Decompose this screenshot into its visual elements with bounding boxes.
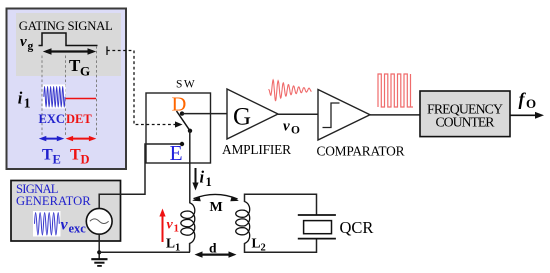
- svg-text:COMPARATOR: COMPARATOR: [317, 144, 405, 159]
- TG measure arrow: [46, 50, 93, 52]
- wire oscillator to ground: [98, 234, 100, 259]
- oscillator source circle: [86, 208, 112, 234]
- svg-text:v: v: [61, 217, 69, 234]
- switch pole node: [188, 129, 192, 133]
- gating signal panel box: [7, 9, 127, 170]
- svg-text:exc: exc: [69, 222, 87, 236]
- svg-text:DET: DET: [66, 112, 92, 126]
- wire L2 top to crystal: [245, 194, 317, 215]
- wire comparator to counter: [370, 114, 420, 116]
- signal generator box: [11, 181, 121, 242]
- wire ground rail to L1 bottom: [99, 251, 190, 253]
- svg-text:D: D: [81, 153, 90, 167]
- wire amplifier to comparator: [278, 113, 318, 115]
- svg-text:M: M: [210, 200, 223, 215]
- output wire fO: [510, 114, 537, 116]
- crystal QCR body: [304, 221, 332, 234]
- damped oscillation wave (red): [269, 80, 312, 101]
- svg-text:O: O: [291, 125, 300, 137]
- svg-text:1: 1: [206, 175, 212, 189]
- svg-text:GENERATOR: GENERATOR: [16, 194, 91, 208]
- svg-text:AMPLIFIER: AMPLIFIER: [222, 142, 291, 157]
- svg-text:g: g: [28, 41, 34, 53]
- d distance arrow: [199, 254, 232, 256]
- svg-text:QCR: QCR: [340, 218, 374, 237]
- amplifier U1: [227, 89, 278, 139]
- i1 current arrow: [195, 168, 197, 184]
- svg-text:v: v: [20, 34, 27, 50]
- svg-text:EXC: EXC: [39, 112, 65, 126]
- svg-text:G: G: [233, 104, 251, 131]
- dashed tick terminator: [106, 46, 108, 55]
- wire pole down to L1: [189, 131, 191, 204]
- frequency counter box: [420, 91, 510, 137]
- svg-text:T: T: [42, 147, 53, 164]
- svg-text:1: 1: [174, 223, 180, 235]
- svg-text:1: 1: [175, 243, 180, 254]
- gating gray inset: [16, 13, 121, 76]
- svg-text:L: L: [166, 236, 175, 251]
- TE measure arrow (blue): [43, 138, 62, 140]
- vexc sine burst (blue): [35, 213, 60, 235]
- wire oscillator to switch E: [99, 144, 182, 208]
- wire L2 bottom to crystal: [245, 239, 317, 253]
- svg-text:D: D: [172, 94, 187, 116]
- oscillator sine glyph: [90, 219, 109, 224]
- comparator U2: [318, 90, 370, 141]
- svg-text:G: G: [80, 64, 90, 79]
- gray dashed timing verticals: [41, 56, 43, 137]
- svg-text:E: E: [53, 153, 61, 167]
- mutual coupling arc M: [194, 194, 238, 199]
- gating pulse waveform: [39, 33, 98, 46]
- svg-text:i: i: [200, 168, 205, 187]
- switch lever: [177, 111, 191, 131]
- TD measure arrow (red): [69, 138, 93, 140]
- svg-text:T: T: [70, 147, 81, 164]
- dashed control line to switch: [107, 51, 176, 125]
- switch SW box: [146, 93, 211, 163]
- ground: [91, 258, 107, 260]
- crystal QCR top plate: [298, 214, 336, 216]
- svg-text:1: 1: [24, 96, 31, 111]
- vexc waveform white patch: [33, 211, 61, 237]
- comparator step glyph: [323, 103, 340, 128]
- v1 arrow (red): [162, 214, 164, 242]
- svg-text:d: d: [209, 240, 217, 255]
- node E: [180, 142, 184, 146]
- crystal QCR bottom plate: [298, 238, 336, 240]
- node D: [180, 111, 184, 115]
- i1 excitation burst (blue): [44, 87, 65, 108]
- transformer secondary L2: [236, 202, 250, 244]
- svg-text:SW: SW: [176, 79, 196, 91]
- svg-text:L: L: [252, 236, 261, 251]
- i1 detection line (red): [66, 98, 97, 100]
- svg-text:i: i: [18, 89, 23, 108]
- svg-text:v: v: [167, 218, 174, 233]
- wire D to amplifier: [182, 113, 228, 115]
- svg-text:v: v: [283, 119, 290, 135]
- i1 waveform white patch: [43, 85, 66, 109]
- svg-text:O: O: [526, 96, 536, 111]
- svg-text:COUNTER: COUNTER: [436, 115, 496, 130]
- wire L1 bottom: [189, 243, 191, 252]
- transformer primary L1: [181, 203, 195, 244]
- square wave (red): [378, 74, 413, 107]
- ground junction node: [97, 250, 101, 254]
- svg-text:GATING SIGNAL: GATING SIGNAL: [19, 19, 113, 33]
